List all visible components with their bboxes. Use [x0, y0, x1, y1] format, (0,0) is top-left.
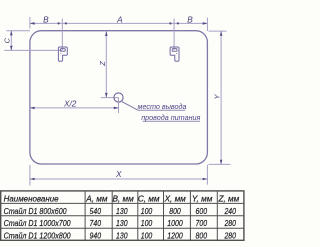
wire: top dimension line: [30, 22, 208, 24]
svg-text:800: 800: [169, 206, 181, 216]
arrow: Z top pointing up: [105, 31, 108, 36]
table row 1: [4, 206, 237, 216]
wire: left bracket centerline: [61, 19, 63, 51]
wire: X left extension: [29, 165, 31, 186]
keyhole bracket left: [58, 47, 67, 61]
wire: X/2 dimension line: [30, 107, 119, 109]
wire: X dimension line: [30, 178, 208, 180]
leader line to note: [122, 102, 138, 111]
svg-text:280: 280: [224, 230, 236, 240]
svg-text:740: 740: [90, 218, 102, 228]
svg-text:130: 130: [116, 218, 128, 228]
arrow: top-right pointing right: [203, 22, 208, 25]
table row 3: [4, 230, 237, 240]
wire: Y bottom extension: [209, 163, 231, 165]
svg-text:Стайл D1 800х600: Стайл D1 800х600: [4, 207, 67, 216]
svg-text:Наименование: Наименование: [4, 195, 59, 204]
arrow dot: A-B tick right side: [177, 22, 179, 24]
svg-text:1200: 1200: [167, 230, 183, 240]
wire: right bracket centerline: [173, 19, 175, 51]
arrow: Z bottom pointing down: [105, 93, 108, 98]
power outlet circle: [114, 93, 123, 102]
svg-text:A: A: [116, 14, 123, 24]
svg-text:X, мм: X, мм: [164, 195, 187, 204]
svg-text:Стайл D1 1000х700: Стайл D1 1000х700: [4, 219, 71, 228]
wire: bracket line through left bracket: [4, 49, 62, 51]
svg-text:600: 600: [196, 206, 208, 216]
svg-text:100: 100: [141, 206, 153, 216]
svg-text:Стайл D1 1200х800: Стайл D1 1200х800: [4, 231, 71, 240]
wire: C dimension line: [10, 31, 12, 51]
wire: left extension tick: [29, 17, 31, 29]
keyhole bracket right: [170, 47, 179, 61]
svg-text:А, мм: А, мм: [85, 195, 108, 204]
mirror outline: [30, 31, 208, 164]
wire: C top extension line: [6, 30, 30, 32]
wire: Y dimension line: [220, 31, 222, 164]
wire: Y top extension: [209, 30, 227, 32]
svg-text:провода питания: провода питания: [141, 113, 200, 122]
svg-text:С, мм: С, мм: [138, 195, 160, 204]
svg-text:В, мм: В, мм: [112, 195, 134, 204]
wire: X right extension: [206, 165, 208, 185]
arrow: X/2 right pointing right: [114, 107, 119, 110]
svg-text:Y, мм: Y, мм: [192, 195, 213, 204]
arrow dot: B-A tick right side: [65, 22, 67, 24]
table header row: [4, 195, 240, 204]
arrow: X left pointing left: [30, 178, 35, 181]
arrow: X right pointing right: [203, 178, 208, 181]
arrow dot: B-A tick left side: [58, 22, 60, 24]
svg-text:100: 100: [141, 218, 153, 228]
arrow: Y top pointing up: [220, 31, 223, 36]
svg-text:940: 940: [90, 230, 102, 240]
arrow: top-left pointing left: [30, 22, 35, 25]
svg-text:130: 130: [116, 206, 128, 216]
arrow: C bottom pointing down: [10, 46, 13, 51]
svg-text:место вывода: место вывода: [138, 102, 187, 111]
arrow: X/2 left pointing left: [30, 107, 35, 110]
svg-text:C: C: [3, 37, 12, 43]
wire: right extension tick: [206, 18, 208, 32]
svg-text:700: 700: [196, 218, 208, 228]
svg-text:540: 540: [90, 206, 102, 216]
table grid: [1, 191, 244, 240]
svg-text:Z: Z: [98, 61, 107, 67]
svg-text:800: 800: [196, 230, 208, 240]
svg-text:Z, мм: Z, мм: [218, 195, 240, 204]
svg-text:B: B: [43, 14, 49, 24]
svg-text:240: 240: [224, 206, 236, 216]
svg-text:130: 130: [116, 230, 128, 240]
svg-text:280: 280: [224, 218, 236, 228]
svg-text:X/2: X/2: [63, 99, 77, 109]
svg-text:100: 100: [141, 230, 153, 240]
svg-text:B: B: [187, 14, 193, 24]
wire: Z dimension line: [105, 31, 107, 97]
note underline 1: [138, 109, 186, 111]
arrow: C top pointing up: [10, 31, 13, 36]
wire: circle level extension line: [101, 97, 119, 99]
table row 2: [4, 218, 237, 228]
arrow: Y bottom pointing down: [220, 160, 223, 165]
wire: X/2 right tick: [118, 98, 120, 113]
svg-text:Y: Y: [213, 93, 222, 99]
note underline 2: [143, 120, 200, 122]
arrow dot: A-B tick left side: [169, 22, 171, 24]
svg-text:X: X: [115, 169, 122, 179]
svg-text:1000: 1000: [167, 218, 183, 228]
